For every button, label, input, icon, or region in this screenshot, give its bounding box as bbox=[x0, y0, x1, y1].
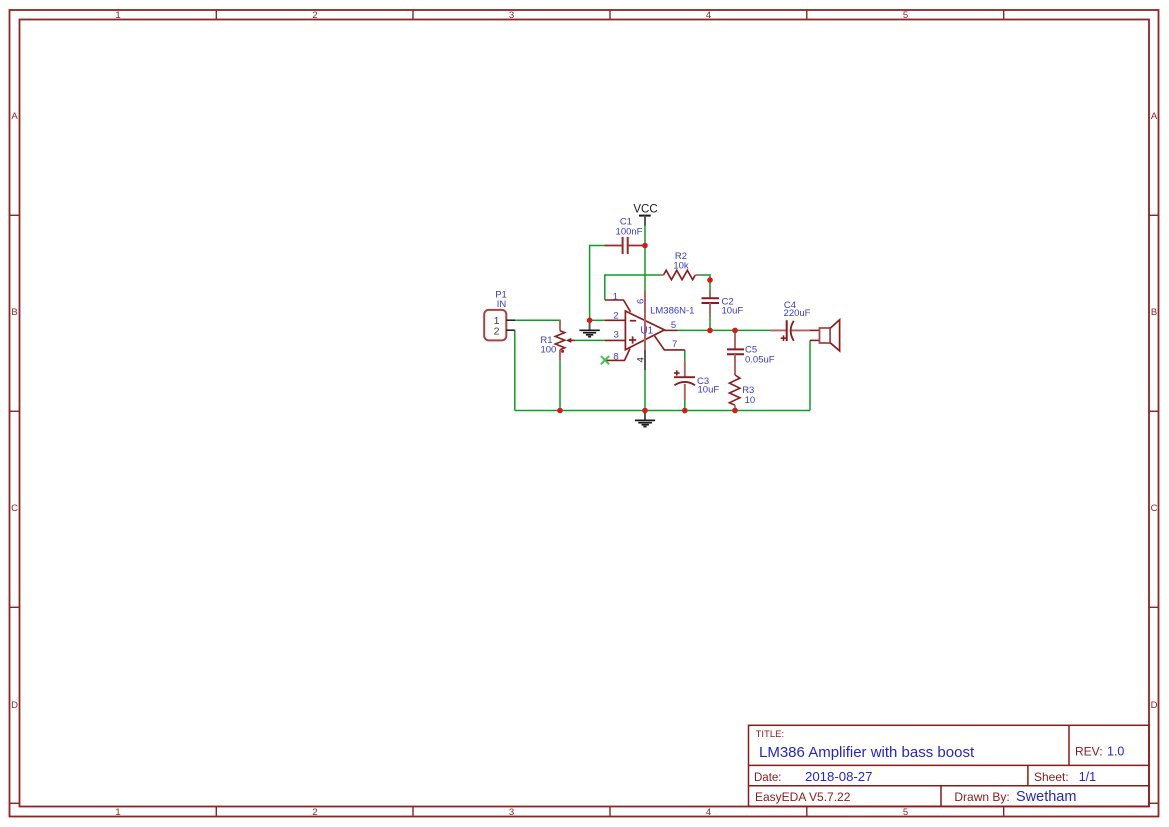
wire pin7 to C3 bbox=[684, 350, 686, 361]
svg-text:10: 10 bbox=[745, 395, 756, 406]
frame bottom ticks bbox=[216, 807, 1003, 817]
wire P1 pin1 to R1 top bbox=[515, 319, 561, 321]
wire P1 pin2 down left side bbox=[514, 330, 516, 410]
junction dot R3-bus bbox=[732, 408, 738, 414]
svg-text:A: A bbox=[11, 111, 18, 122]
frame column labels top bbox=[115, 10, 908, 21]
junction dot gnd-pin2 bbox=[587, 318, 593, 324]
svg-text:D: D bbox=[11, 700, 18, 711]
frame row labels left bbox=[11, 111, 18, 711]
op-amp U1 pin 3 bbox=[605, 339, 625, 341]
wire C1 node down to pin6 bbox=[644, 246, 646, 292]
ground left bbox=[579, 320, 599, 336]
svg-text:A: A bbox=[1151, 111, 1158, 122]
wire R1 wiper to pin3 bbox=[574, 339, 605, 341]
speaker LS1 bbox=[810, 320, 840, 351]
resistor R2 bbox=[662, 270, 701, 279]
frame column labels bottom bbox=[115, 807, 908, 818]
svg-text:EasyEDA V5.7.22: EasyEDA V5.7.22 bbox=[755, 790, 851, 804]
wire C1 left vertical bbox=[590, 246, 605, 321]
svg-text:1.0: 1.0 bbox=[1107, 745, 1124, 759]
svg-text:LM386 Amplifier with bass boos: LM386 Amplifier with bass boost bbox=[759, 744, 975, 761]
no-connect X on pin 8 bbox=[601, 356, 609, 364]
svg-text:2: 2 bbox=[613, 310, 618, 321]
junction dot R1-bus bbox=[557, 408, 563, 414]
capacitor C1 bbox=[605, 237, 646, 254]
wire output net bbox=[678, 329, 771, 331]
svg-text:1/1: 1/1 bbox=[1079, 770, 1096, 784]
svg-text:10uF: 10uF bbox=[698, 385, 720, 396]
svg-text:4: 4 bbox=[706, 807, 711, 818]
op-amp U1 pin 4 vertical bbox=[644, 350, 646, 370]
svg-text:B: B bbox=[11, 307, 17, 318]
svg-text:5: 5 bbox=[671, 320, 676, 331]
svg-text:100nF: 100nF bbox=[616, 227, 643, 238]
svg-text:2: 2 bbox=[312, 10, 317, 21]
svg-text:220uF: 220uF bbox=[784, 308, 811, 319]
op-amp U1 pin 8 bbox=[606, 349, 631, 361]
svg-text:2: 2 bbox=[312, 807, 317, 818]
svg-text:U1: U1 bbox=[640, 326, 653, 337]
svg-text:C: C bbox=[1151, 503, 1158, 514]
title block box bbox=[749, 725, 1150, 806]
svg-text:4: 4 bbox=[635, 357, 646, 362]
wire C3 bottom to bus bbox=[684, 401, 686, 411]
svg-text:2: 2 bbox=[494, 326, 500, 338]
capacitor C3 polarized bbox=[674, 361, 695, 401]
svg-text:Sheet:: Sheet: bbox=[1034, 770, 1069, 784]
svg-text:Date:: Date: bbox=[754, 772, 782, 784]
frame right ticks bbox=[1149, 215, 1159, 803]
svg-text:7: 7 bbox=[672, 339, 677, 350]
svg-text:3: 3 bbox=[614, 330, 619, 341]
svg-text:5: 5 bbox=[903, 807, 908, 818]
svg-text:3: 3 bbox=[509, 10, 514, 21]
svg-text:2018-08-27: 2018-08-27 bbox=[805, 769, 872, 784]
wire R1 bottom to bus bbox=[559, 360, 561, 411]
op-amp U1 pin 2 bbox=[605, 319, 625, 321]
junction dot C3-bus bbox=[682, 408, 688, 414]
svg-text:4: 4 bbox=[706, 10, 711, 21]
svg-text:0.05uF: 0.05uF bbox=[745, 354, 775, 365]
svg-text:8: 8 bbox=[613, 352, 618, 363]
wire ground bus bottom bbox=[515, 410, 810, 412]
svg-text:C: C bbox=[11, 503, 18, 514]
op-amp U1 bbox=[625, 311, 664, 350]
wire R2 right elbow to C2 bbox=[701, 275, 711, 290]
junction dot R2-C2 bbox=[707, 277, 713, 283]
wire C2 bottom to output bbox=[709, 317, 711, 330]
svg-text:3: 3 bbox=[509, 807, 514, 818]
resistor R3 bbox=[729, 375, 740, 411]
junction dot C1-VCC bbox=[642, 243, 648, 249]
frame top ticks bbox=[216, 10, 1003, 20]
svg-text:6: 6 bbox=[636, 299, 647, 304]
op-amp U1 pin 5 output bbox=[664, 329, 677, 331]
wire speaker bottom down to bus bbox=[809, 340, 811, 410]
op-amp U1 pin 1 bbox=[605, 300, 631, 312]
svg-text:VCC: VCC bbox=[633, 204, 657, 216]
junction dot C2-output bbox=[707, 328, 713, 334]
svg-text:B: B bbox=[1151, 307, 1157, 318]
ground bottom bbox=[635, 411, 655, 427]
svg-text:1: 1 bbox=[115, 807, 120, 818]
wire gnd node to pin2 bbox=[590, 319, 605, 321]
junction dot C5-output bbox=[732, 328, 738, 334]
svg-text:10uF: 10uF bbox=[722, 306, 744, 317]
svg-text:100: 100 bbox=[540, 345, 556, 356]
wire pin4 to ground bus bbox=[644, 370, 646, 410]
svg-text:LM386N-1: LM386N-1 bbox=[650, 306, 694, 317]
VCC symbol bbox=[633, 204, 657, 226]
svg-text:REV:: REV: bbox=[1075, 745, 1103, 759]
capacitor C4 polarized bbox=[770, 320, 810, 341]
svg-text:Drawn By:: Drawn By: bbox=[954, 790, 1009, 804]
frame row labels right bbox=[1151, 111, 1158, 711]
potentiometer R1 bbox=[555, 320, 574, 360]
op-amp U1 pin 7 bbox=[655, 336, 685, 350]
wire VCC to C1 node bbox=[644, 226, 646, 246]
connector P1 bbox=[484, 310, 515, 341]
svg-text:1: 1 bbox=[613, 291, 618, 302]
svg-text:D: D bbox=[1151, 700, 1158, 711]
svg-text:Swetham: Swetham bbox=[1016, 789, 1076, 805]
svg-text:1: 1 bbox=[115, 10, 120, 21]
frame left ticks bbox=[10, 215, 20, 803]
capacitor C5 bbox=[727, 334, 744, 375]
junction dot gnd-bus bbox=[642, 408, 648, 414]
capacitor C2 bbox=[702, 290, 720, 317]
svg-text:10k: 10k bbox=[673, 261, 689, 272]
svg-text:5: 5 bbox=[903, 10, 908, 21]
svg-text:TITLE:: TITLE: bbox=[756, 729, 785, 740]
wire output to C5 bbox=[734, 330, 736, 334]
wire pin1 up and right to R2 bbox=[605, 275, 662, 300]
svg-text:IN: IN bbox=[497, 299, 507, 310]
op-amp U1 pin 6 vertical bbox=[644, 291, 646, 350]
